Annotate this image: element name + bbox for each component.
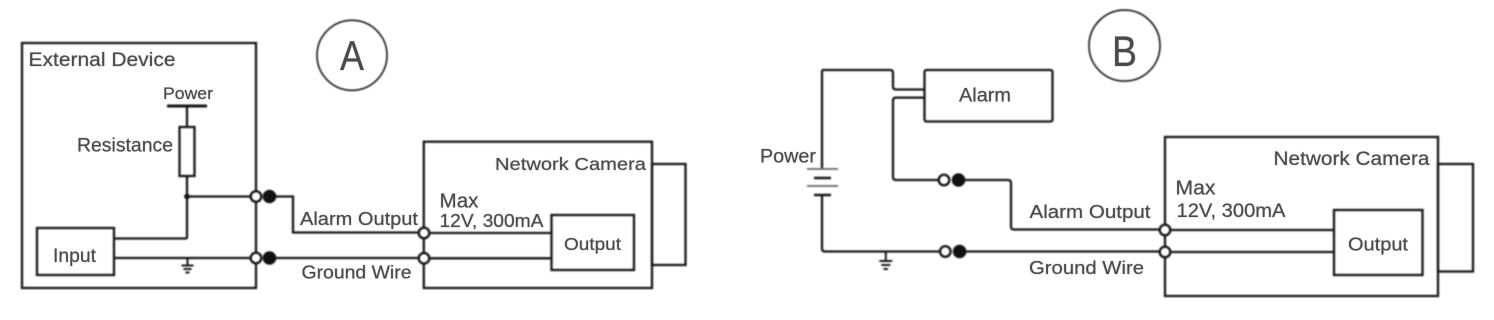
camera terminal open circle: ground (A) [419,253,430,264]
wire battery positive up to top rail (B) [821,70,823,168]
external device box [22,43,256,288]
wire camera ground terminal to output box (B) [1170,251,1334,253]
camera terminal open circle: alarm in (A) [419,228,430,239]
svg-text:Network Camera: Network Camera [495,154,646,174]
wire ground (A) to camera [276,257,419,259]
svg-text:Ground Wire: Ground Wire [302,263,412,283]
svg-text:Alarm Output: Alarm Output [300,209,418,229]
svg-text:Power: Power [760,147,817,168]
camera terminal open circle: alarm in (B) [1160,225,1171,236]
wire top rail from battery to alarm box upper stub (B) [822,70,925,90]
network camera box (B) [1165,137,1438,296]
ground symbol (A) [182,258,194,273]
alarm box (B) [925,70,1053,122]
svg-text:A: A [340,32,364,79]
wire input box to node J1 [114,237,187,239]
circle badge A [317,20,387,90]
battery BT1: long plate 1 [807,168,838,170]
wire input box to ground terminal (A) [114,257,251,259]
camera rear connector block (B) [1438,164,1473,272]
svg-text:Max: Max [1176,178,1216,200]
wire alarm output (B): jog to camera [965,180,1160,230]
wire alarm output (A): jog to camera [276,197,419,233]
battery BT1: long plate 2 [807,185,838,187]
circle badge B [1089,10,1160,81]
wire node J1 down to input wire [186,197,188,239]
wire battery negative down and right to ground (B) [822,195,940,252]
battery BT1: short plate 2 [814,194,831,197]
svg-text:Network Camera: Network Camera [1274,149,1430,170]
junction filled dot: alarm out (B) [952,173,966,187]
node J1 junction dot [184,194,190,200]
power supply rail bar (A) [167,105,207,108]
svg-text:Resistance: Resistance [77,136,173,157]
svg-text:Output: Output [1348,235,1408,255]
svg-text:Ground Wire: Ground Wire [1029,258,1144,278]
svg-text:Power: Power [163,85,214,103]
camera terminal open circle: ground (B) [1160,247,1171,258]
svg-text:External Device: External Device [29,50,176,71]
junction filled dot: ground (A) [263,251,277,265]
ground symbol (B) [879,252,892,270]
terminal open circle: device ground (A) [251,253,262,264]
input box [37,228,114,275]
output box (A) [552,215,635,270]
svg-text:Alarm Output: Alarm Output [1030,202,1151,222]
terminal open circle: alarm out (B) [939,175,950,186]
network camera box (A) [424,142,652,288]
battery BT1: short plate 1 [814,177,831,180]
svg-text:Input: Input [53,246,97,267]
junction filled dot: alarm out (A) [263,190,277,204]
svg-text:Alarm: Alarm [959,86,1011,107]
wire ground (B) to camera [966,250,1160,252]
wire camera ground terminal to output box (A) [429,257,551,259]
resistor R1 body [180,127,195,176]
wire node J1 to alarm-out terminal [187,195,251,197]
wire alarm box lower stub down to alarm output (B) [893,98,939,180]
wire power bar to resistor R1 [186,106,188,127]
terminal open circle: ground (B) [940,246,951,257]
junction filled dot: ground (B) [953,245,967,259]
svg-text:12V, 300mA: 12V, 300mA [1177,201,1286,222]
svg-text:Output: Output [564,234,621,254]
terminal open circle: device alarm out (A) [251,191,262,202]
svg-text:B: B [1112,28,1137,76]
svg-text:12V, 300mA: 12V, 300mA [440,210,545,231]
camera rear connector block (A) [652,164,686,265]
wire resistor R1 to node J1 [186,176,188,197]
output box (B) [1334,210,1423,275]
wire camera alarm terminal to output box (A) [429,232,551,234]
wire camera alarm terminal to output box (B) [1170,229,1334,231]
